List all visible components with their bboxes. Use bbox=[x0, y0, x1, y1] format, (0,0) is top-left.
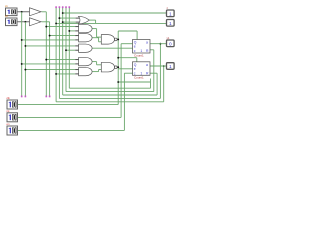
svg-text:a: a bbox=[146, 63, 148, 67]
svg-text:e: e bbox=[134, 67, 136, 71]
svg-text:a: a bbox=[146, 41, 148, 45]
svg-text:Count1: Count1 bbox=[134, 76, 144, 80]
svg-text:Count1: Count1 bbox=[134, 53, 144, 57]
svg-text:e: e bbox=[134, 45, 136, 49]
